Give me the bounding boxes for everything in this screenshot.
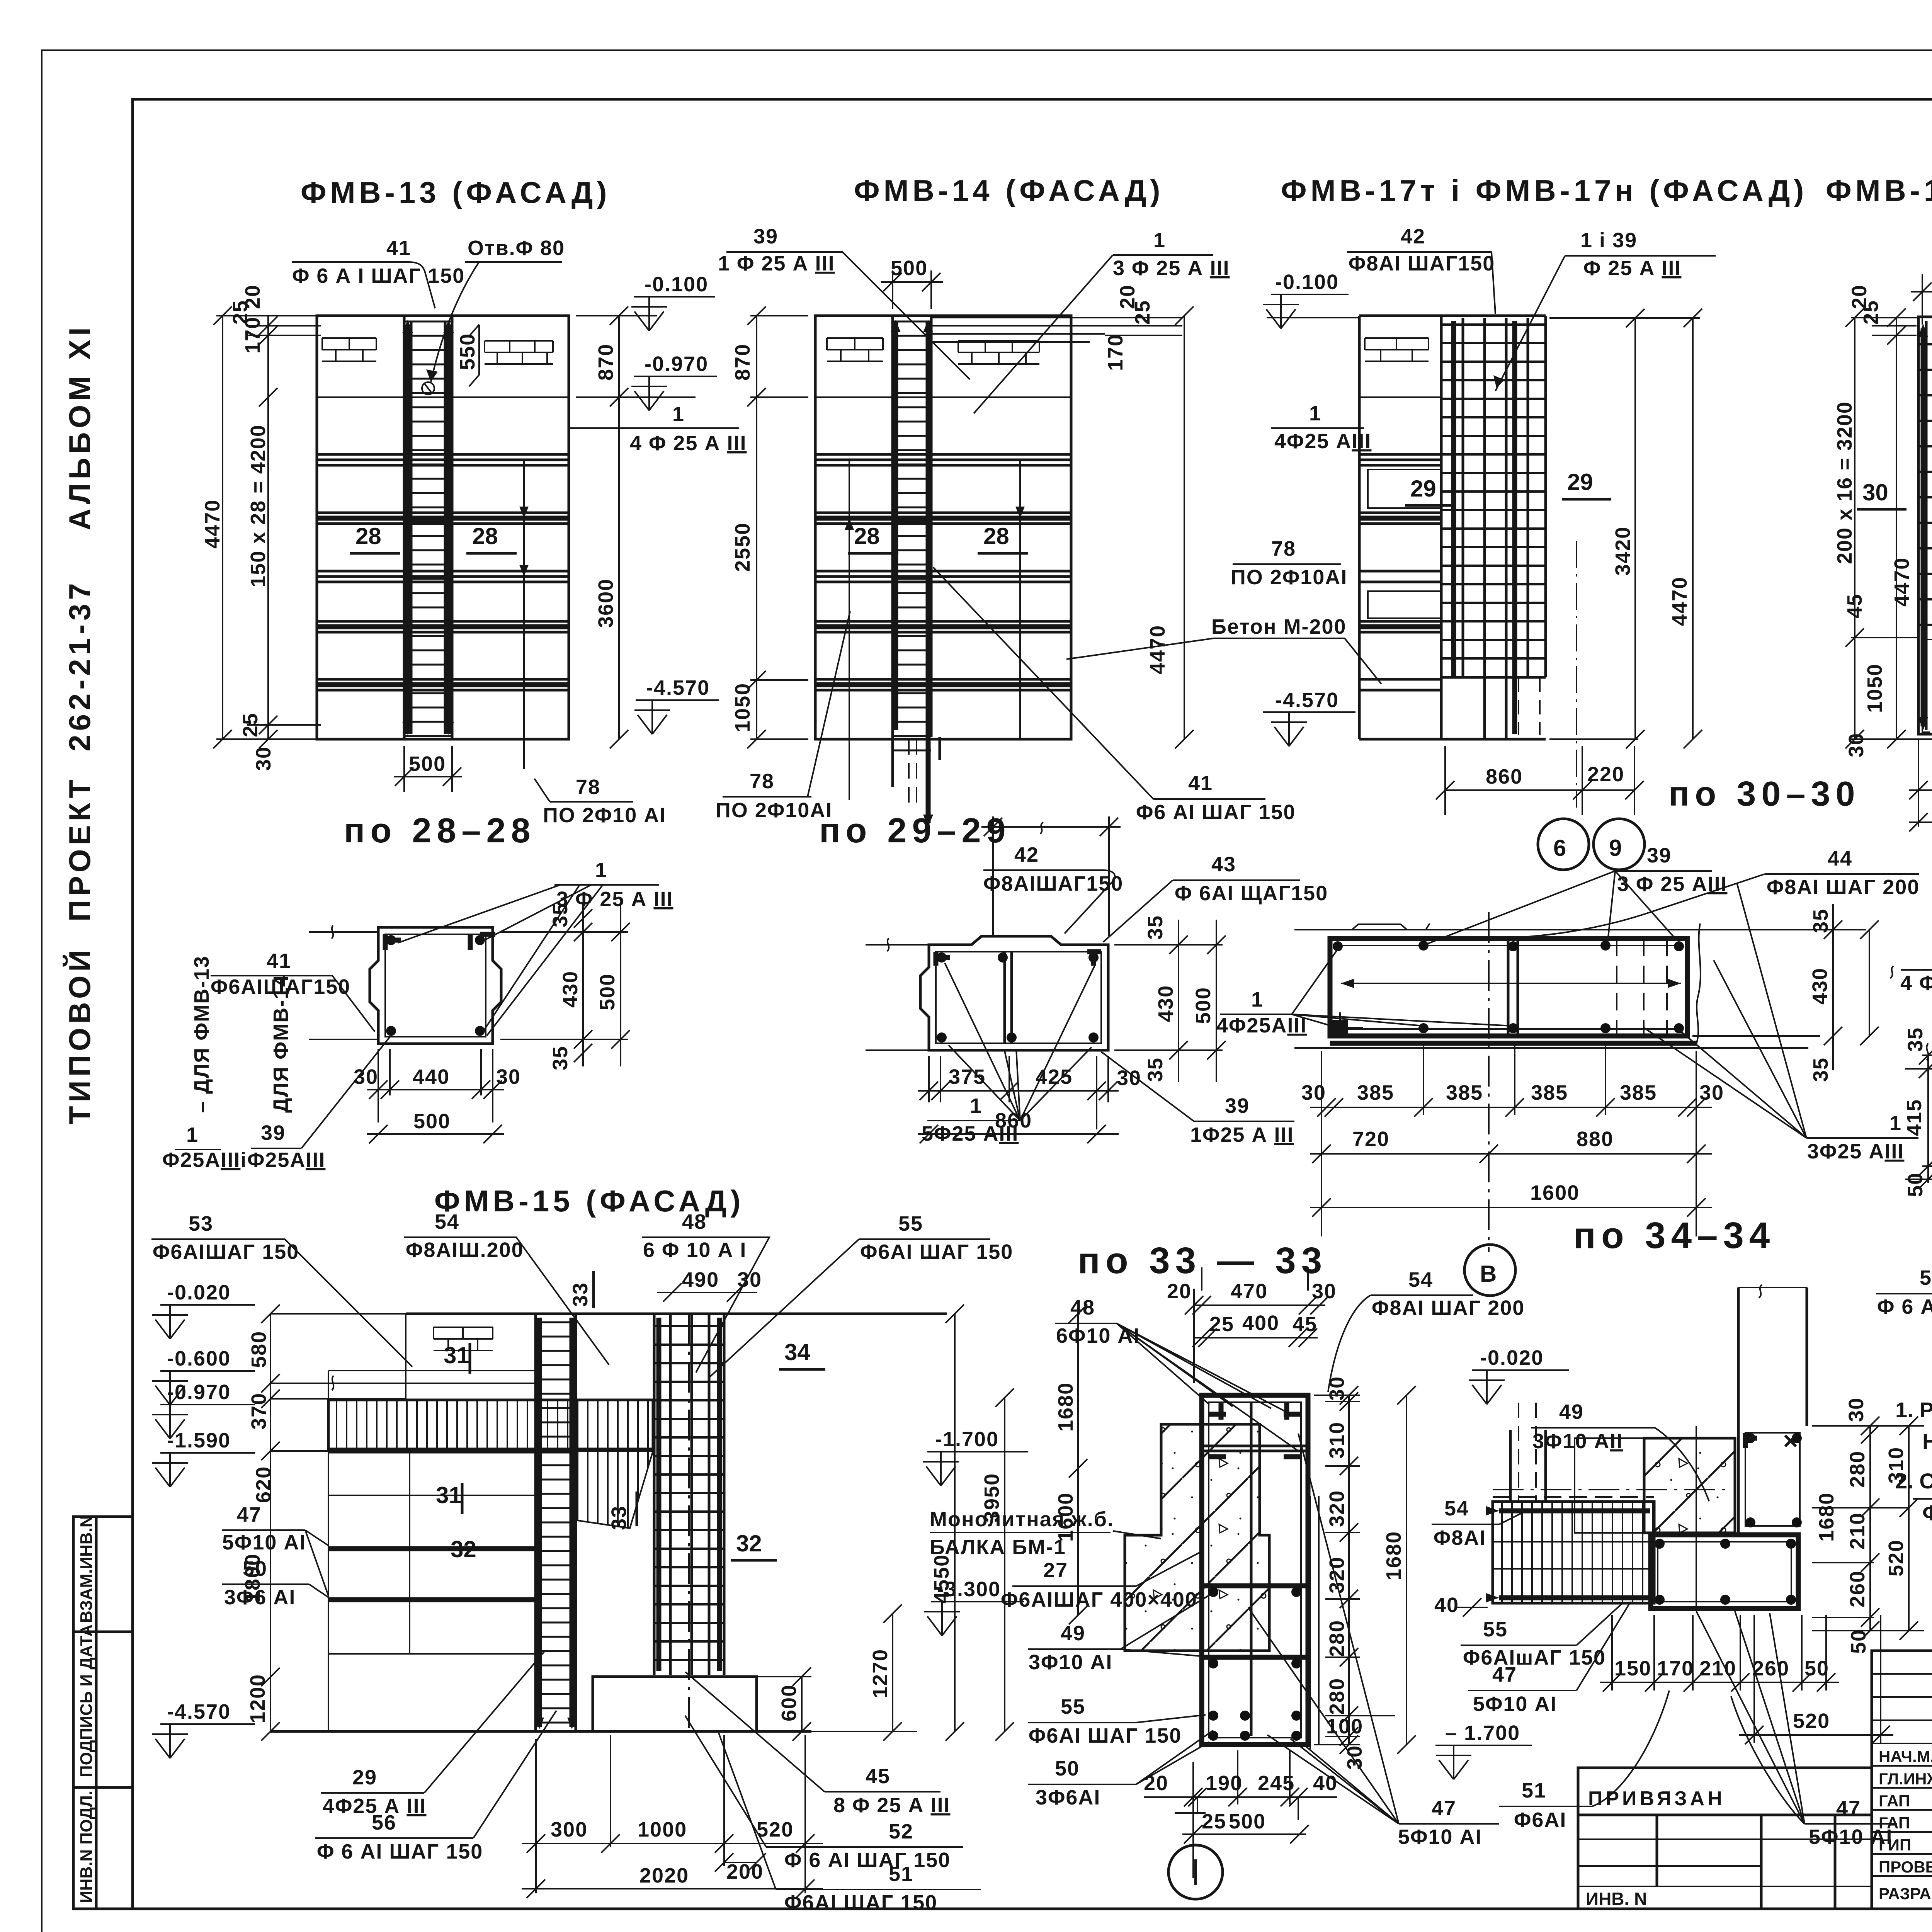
white slab rect	[1575, 1438, 1644, 1533]
svg-text:1: 1	[672, 403, 685, 426]
level -3.300	[931, 1601, 1024, 1602]
svg-text:1: 1	[595, 859, 607, 882]
svg-text:190: 190	[1206, 1772, 1243, 1795]
svg-text:280: 280	[1325, 1620, 1349, 1657]
svg-text:49: 49	[1061, 1622, 1085, 1645]
column ladder	[893, 316, 931, 760]
svg-text:ГЛ.ИНЖ.М.: ГЛ.ИНЖ.М.	[1879, 1770, 1932, 1788]
svg-text:385: 385	[1446, 1081, 1483, 1104]
svg-text:Φ6АIШАГ 150: Φ6АIШАГ 150	[153, 1240, 299, 1264]
svg-text:45: 45	[866, 1765, 890, 1788]
wall top line	[815, 396, 1071, 398]
svg-text:385: 385	[1620, 1081, 1657, 1104]
svg-text:33: 33	[569, 1282, 592, 1307]
svg-text:200: 200	[726, 1860, 764, 1883]
svg-text:по 30–30: по 30–30	[1668, 775, 1861, 813]
svg-text:870: 870	[594, 344, 617, 381]
SEC-FIG3 FMV-17 fasad	[1231, 173, 1861, 870]
svg-text:35: 35	[1144, 915, 1167, 940]
brick patch right	[485, 341, 553, 364]
brick patch left	[322, 338, 376, 361]
svg-text:1: 1	[970, 1094, 982, 1117]
SEC-FIG4 FMV-16 fasad	[1826, 173, 1932, 832]
wall outline	[815, 316, 1071, 739]
svg-text:30: 30	[737, 1268, 762, 1291]
svg-text:280: 280	[1846, 1451, 1869, 1488]
svg-text:30: 30	[252, 746, 275, 771]
svg-text:Φ 25 А III: Φ 25 А III	[1583, 257, 1681, 280]
svg-text:Φ8АI: Φ8АI	[1434, 1526, 1486, 1549]
SEC-FIG2 FMV-14 fasad	[716, 173, 1381, 850]
right dims 35/430/35	[1692, 904, 1869, 1070]
490 30 dims	[657, 1292, 757, 1293]
bold bars with arrows	[1923, 328, 1932, 726]
svg-text:490: 490	[682, 1268, 719, 1291]
lower column part	[1519, 677, 1540, 735]
svg-text:210: 210	[1846, 1512, 1869, 1549]
dashed center col2	[688, 1314, 690, 1731]
top dim 650/600	[1911, 274, 1932, 369]
svg-text:6: 6	[1553, 835, 1566, 861]
svg-text:55: 55	[1483, 1618, 1508, 1641]
svg-text:4470: 4470	[1146, 625, 1169, 674]
svg-text:ВЗАМ.ИНВ.N: ВЗАМ.ИНВ.N	[77, 1515, 96, 1623]
right dims	[724, 1314, 1078, 1731]
svg-text:ИНВ. N: ИНВ. N	[1586, 1889, 1647, 1909]
concrete blob	[1125, 1424, 1269, 1651]
svg-text:БАЛКА БМ-1: БАЛКА БМ-1	[930, 1536, 1066, 1559]
leader vertical	[523, 460, 525, 769]
svg-text:30: 30	[496, 1065, 521, 1088]
svg-text:500: 500	[891, 257, 928, 280]
svg-text:45: 45	[1843, 594, 1866, 618]
svg-text:-0.020: -0.020	[167, 1281, 231, 1304]
svg-text:370: 370	[247, 1393, 270, 1430]
circle B	[1464, 1245, 1515, 1296]
svg-text:3 Φ 25 А III: 3 Φ 25 А III	[556, 888, 673, 911]
svg-text:3Φ10 АI: 3Φ10 АI	[1029, 1651, 1112, 1674]
svg-text:ПО 2Φ10АI: ПО 2Φ10АI	[1231, 566, 1347, 589]
svg-text:29: 29	[1410, 476, 1436, 502]
svg-text:4 Φ 25 А III: 4 Φ 25 А III	[1900, 971, 1932, 995]
svg-text:ФМВ-17н СМ. НА ЧЕРТЕЖЕ КС1-1: ФМВ-17н СМ. НА ЧЕРТЕЖЕ КС1-15.	[1922, 1500, 1932, 1525]
svg-text:35: 35	[1809, 1057, 1832, 1082]
wall block w dots	[1745, 1433, 1800, 1526]
svg-text:2020: 2020	[639, 1864, 689, 1887]
svg-text:Φ6АIшАГ 150: Φ6АIшАГ 150	[1463, 1646, 1606, 1669]
corner bars	[386, 935, 396, 945]
svg-text:620: 620	[252, 1466, 275, 1503]
bottom dims	[918, 1056, 1119, 1134]
svg-text:30: 30	[1325, 1376, 1349, 1401]
brick patch	[1365, 338, 1429, 361]
svg-text:ПОДПИСЬ И ДАТА: ПОДПИСЬ И ДАТА	[77, 1624, 96, 1777]
svg-text:НА ПЛАНЕ СМ. НА ЧЕРТЕЖАХ КС: НА ПЛАНЕ СМ. НА ЧЕРТЕЖАХ КС1-1; КС1-2.	[1922, 1429, 1932, 1454]
level -0.100	[1267, 294, 1359, 318]
label 1 4f25	[569, 427, 739, 429]
level -0.970	[634, 376, 717, 377]
svg-text:29: 29	[1567, 469, 1593, 495]
svg-text:ДЛЯ ФМВ-14: ДЛЯ ФМВ-14	[269, 975, 293, 1113]
svg-text:1050: 1050	[731, 683, 754, 732]
centerline	[1488, 912, 1490, 1252]
svg-text:Φ8АIШАГ150: Φ8АIШАГ150	[983, 872, 1123, 895]
svg-text:520: 520	[757, 1818, 794, 1841]
wall top line	[406, 1313, 947, 1315]
svg-text:НАЧ.МАС.: НАЧ.МАС.	[1879, 1747, 1932, 1765]
bottom dims 860/220	[1445, 746, 1634, 815]
svg-text:320: 320	[1325, 1490, 1349, 1527]
svg-text:1: 1	[1251, 988, 1264, 1011]
svg-text:25: 25	[1202, 1810, 1226, 1833]
svg-text:41: 41	[1188, 772, 1213, 795]
svg-text:170: 170	[1104, 334, 1127, 371]
level -0.100	[634, 296, 715, 298]
svg-text:33: 33	[607, 1505, 631, 1530]
section outline with notches	[920, 936, 1108, 1050]
svg-text:4Φ25АIII: 4Φ25АIII	[1216, 1014, 1307, 1037]
svg-text:1Φ25 А III: 1Φ25 А III	[1190, 1123, 1294, 1146]
svg-text:50: 50	[1055, 1757, 1080, 1780]
svg-text:3 Φ 25 А III: 3 Φ 25 А III	[1113, 257, 1230, 280]
svg-text:5Φ10 АI: 5Φ10 АI	[222, 1531, 306, 1554]
dashed bars	[1617, 939, 1667, 1036]
svg-text:по 29–29: по 29–29	[819, 811, 1011, 850]
svg-text:ТИПОВОЙ ПРОЕКТ 262-21-37: ТИПОВОЙ ПРОЕКТ 262-21-37 АЛЬБОМ XI	[63, 323, 97, 1124]
bottom dims	[1909, 734, 1932, 827]
svg-text:ИНВ.N ПОДЛ.: ИНВ.N ПОДЛ.	[77, 1791, 96, 1903]
bottom dims	[1144, 1750, 1337, 1878]
svg-text:4Φ25 АIII: 4Φ25 АIII	[1274, 430, 1371, 453]
tall rect	[1202, 1395, 1308, 1745]
svg-text:Φ6АI: Φ6АI	[1514, 1808, 1566, 1832]
svg-text:580: 580	[247, 1331, 270, 1368]
floor bands	[317, 454, 569, 690]
levels left	[160, 1304, 255, 1306]
column grid dense	[1441, 318, 1546, 677]
svg-text:1: 1	[1309, 402, 1321, 425]
stirrup pair	[1508, 939, 1518, 1036]
right dims	[500, 904, 628, 1066]
top horizontal hatch lines right of column	[931, 318, 1105, 342]
svg-text:50: 50	[1904, 1172, 1927, 1197]
svg-text:30: 30	[1699, 1081, 1724, 1104]
svg-text:78: 78	[576, 776, 600, 799]
svg-text:470: 470	[1231, 1280, 1268, 1303]
svg-text:260: 260	[1752, 1657, 1789, 1680]
personnel rows	[1872, 1674, 1932, 1876]
svg-text:39: 39	[753, 225, 778, 248]
svg-text:32: 32	[736, 1531, 762, 1556]
550 dim	[469, 325, 479, 386]
svg-text:1 і 39: 1 і 39	[1580, 229, 1637, 252]
svg-text:48: 48	[682, 1210, 707, 1233]
SEC-PRIVYAZ	[1578, 1768, 1872, 1909]
svg-text:220: 220	[1587, 763, 1624, 786]
section square outline	[370, 927, 501, 1044]
svg-text:Φ 6 АI ШАГ 150: Φ 6 АI ШАГ 150	[1877, 1295, 1932, 1318]
SEC-TITLEBLOCK	[1872, 1651, 1932, 1932]
svg-text:по 28–28: по 28–28	[344, 811, 536, 850]
svg-text:Φ 6АI ЩАГ150: Φ 6АI ЩАГ150	[1175, 882, 1328, 905]
right dims	[576, 316, 696, 739]
svg-text:28: 28	[355, 523, 381, 549]
svg-text:29: 29	[352, 1766, 377, 1789]
svg-text:– ДЛЯ ФМВ-13: – ДЛЯ ФМВ-13	[190, 956, 213, 1113]
svg-text:400: 400	[1242, 1311, 1279, 1335]
svg-text:3600: 3600	[594, 578, 617, 628]
svg-text:Φ8АI ШАГ 200: Φ8АI ШАГ 200	[1767, 876, 1920, 899]
svg-text:-4.570: -4.570	[646, 676, 710, 699]
svg-text:39: 39	[1225, 1094, 1250, 1117]
svg-text:Монолитная ж.б.: Монолитная ж.б.	[930, 1508, 1114, 1531]
svg-text:43: 43	[1211, 853, 1236, 876]
svg-text:430: 430	[1808, 968, 1832, 1005]
long arrow bars inside	[1341, 983, 1681, 984]
bottom 500 dim	[394, 746, 462, 792]
top 500 dim	[881, 270, 943, 309]
svg-text:Φ 6 АI ШАГ 150: Φ 6 АI ШАГ 150	[784, 1849, 951, 1872]
svg-text:25: 25	[1209, 1313, 1234, 1336]
svg-text:280: 280	[1325, 1678, 1349, 1715]
svg-text:-1.700: -1.700	[935, 1428, 999, 1451]
SEC-FIG8B section po32-32	[1876, 857, 1932, 1335]
band lines	[1922, 1043, 1932, 1166]
svg-text:260: 260	[1846, 1570, 1869, 1607]
svg-text:47: 47	[1432, 1797, 1456, 1820]
svg-text:ФМВ-13 (ФАСАД): ФМВ-13 (ФАСАД)	[301, 175, 611, 209]
svg-text:-0.100: -0.100	[1275, 270, 1339, 294]
svg-text:Бетон М-200: Бетон М-200	[1211, 615, 1347, 638]
svg-text:-0.020: -0.020	[1480, 1346, 1544, 1369]
svg-text:1270: 1270	[869, 1649, 892, 1698]
SEC-FIG6 section po28-28	[162, 859, 673, 1172]
svg-text:245: 245	[1258, 1772, 1295, 1795]
level -1.700 right	[927, 1451, 1028, 1452]
bottom dims	[1310, 1041, 1712, 1236]
concrete square	[1644, 1438, 1735, 1533]
svg-text:720: 720	[1352, 1128, 1389, 1151]
verticals above beam	[1510, 1430, 1546, 1502]
svg-text:41: 41	[386, 236, 411, 260]
left dims	[1851, 317, 1932, 739]
svg-text:Φ8АIШ.200: Φ8АIШ.200	[406, 1238, 524, 1262]
role texts	[1879, 1747, 1932, 1903]
stirrup divider	[1005, 952, 1012, 1043]
svg-text:30: 30	[1301, 1081, 1326, 1104]
svg-text:430: 430	[1154, 985, 1177, 1022]
svg-text:-0.100: -0.100	[645, 273, 708, 296]
svg-text:Φ25АIII: Φ25АIII	[247, 1148, 325, 1172]
svg-text:27: 27	[1043, 1559, 1068, 1582]
svg-text:48: 48	[1070, 1296, 1095, 1319]
brick patches	[827, 338, 883, 361]
svg-text:42: 42	[1014, 843, 1039, 866]
svg-text:78: 78	[1271, 537, 1296, 560]
svg-text:Φ8АI ШАГ150: Φ8АI ШАГ150	[1349, 252, 1495, 275]
left dims 35/415/50	[1905, 1055, 1932, 1183]
svg-text:Φ6АI ШАГ 150: Φ6АI ШАГ 150	[784, 1891, 937, 1914]
title block outline	[1872, 1651, 1932, 1909]
wall top line	[317, 396, 569, 398]
svg-text:51: 51	[1522, 1779, 1546, 1802]
svg-text:28: 28	[854, 523, 880, 549]
svg-text:54: 54	[435, 1210, 459, 1233]
svg-text:39: 39	[1647, 844, 1672, 867]
svg-text:600: 600	[777, 1684, 801, 1721]
svg-text:3Φ10 АII: 3Φ10 АII	[1532, 1430, 1623, 1453]
right dims	[1812, 1426, 1924, 1631]
svg-text:500: 500	[1229, 1810, 1266, 1833]
svg-text:5Φ10 АI: 5Φ10 АI	[1398, 1825, 1482, 1849]
svg-text:56: 56	[1920, 1266, 1932, 1289]
right dim chain	[1314, 1395, 1406, 1745]
svg-text:Φ6АI ШАГ 150: Φ6АI ШАГ 150	[1029, 1724, 1182, 1747]
svg-text:Отв.Φ 80: Отв.Φ 80	[468, 236, 565, 260]
svg-text:35: 35	[1144, 1057, 1167, 1082]
svg-text:375: 375	[949, 1065, 986, 1088]
svg-text:ФМВ-17т і ФМВ-17н (ФАСАД): ФМВ-17т і ФМВ-17н (ФАСАД)	[1281, 173, 1808, 207]
internal dividers	[1202, 1446, 1308, 1451]
svg-text:9: 9	[1609, 835, 1622, 861]
svg-text:4 Φ 25 А III: 4 Φ 25 А III	[630, 432, 747, 455]
svg-text:385: 385	[1357, 1081, 1394, 1104]
svg-text:30: 30	[1117, 1066, 1141, 1090]
svg-text:1680: 1680	[1382, 1531, 1405, 1580]
svg-text:1: 1	[1889, 1112, 1902, 1135]
svg-text:30: 30	[1312, 1280, 1337, 1303]
svg-text:ГАП: ГАП	[1879, 1792, 1910, 1810]
rebar rect below	[1651, 1535, 1798, 1609]
rebar dots	[1333, 941, 1343, 951]
svg-text:6 Φ 10 А I: 6 Φ 10 А I	[643, 1238, 747, 1262]
svg-text:Φ6АI ШАГ 150: Φ6АI ШАГ 150	[860, 1240, 1013, 1264]
svg-text:47: 47	[237, 1503, 262, 1526]
svg-text:50: 50	[1847, 1629, 1870, 1654]
svg-text:-0.970: -0.970	[167, 1381, 231, 1404]
svg-text:1000: 1000	[638, 1818, 687, 1841]
svg-text:52: 52	[889, 1820, 913, 1843]
svg-text:ПО 2Φ10 АI: ПО 2Φ10 АI	[543, 804, 666, 827]
bottom dims	[367, 1049, 504, 1134]
column1 ladder	[536, 1314, 576, 1731]
column2 grid	[654, 1314, 724, 1675]
svg-text:28: 28	[472, 523, 498, 549]
thick bars left of col1	[328, 1549, 536, 1600]
beam hatched	[328, 1400, 653, 1449]
left beam grid	[1493, 1502, 1654, 1603]
svg-text:ФМВ-14 (ФАСАД): ФМВ-14 (ФАСАД)	[854, 173, 1164, 207]
svg-text:20: 20	[1167, 1280, 1192, 1303]
svg-text:25: 25	[239, 713, 262, 737]
svg-text:ПРИВЯЗАН: ПРИВЯЗАН	[1588, 1787, 1725, 1810]
svg-text:150: 150	[1614, 1657, 1651, 1680]
svg-text:4470: 4470	[1890, 557, 1913, 607]
top ref line	[981, 816, 1121, 936]
rebar dots	[937, 952, 947, 963]
panels left of col1	[328, 1451, 536, 1654]
svg-text:500: 500	[413, 1110, 451, 1133]
svg-text:5Φ25 АIII: 5Φ25 АIII	[922, 1122, 1019, 1145]
right dim 4470	[1184, 316, 1185, 739]
svg-text:50: 50	[243, 1557, 267, 1580]
svg-text:– 1.700: – 1.700	[1445, 1721, 1520, 1745]
svg-text:1. РАСПОЛОЖЕНИЕ ФМВ-13÷ФМВ-17: 1. РАСПОЛОЖЕНИЕ ФМВ-13÷ФМВ-17т; ФМВ-17н	[1895, 1398, 1932, 1422]
svg-text:25: 25	[1131, 300, 1154, 325]
svg-text:Φ6АIШАГ 400×400: Φ6АIШАГ 400×400	[1001, 1588, 1197, 1611]
level -4.570	[636, 699, 719, 701]
wall cut extension	[309, 925, 378, 1039]
svg-text:870: 870	[731, 344, 754, 381]
svg-text:ПО 2Φ10АI: ПО 2Φ10АI	[716, 799, 832, 822]
svg-text:200 x 16 = 3200: 200 x 16 = 3200	[1833, 401, 1856, 564]
svg-text:1: 1	[186, 1123, 199, 1146]
bottom dims	[522, 1735, 823, 1893]
svg-text:ФМВ-16т ; ФМВ-16н (ФАСАД): ФМВ-16т ; ФМВ-16н (ФАСАД)	[1826, 173, 1932, 207]
svg-text:39: 39	[261, 1121, 286, 1145]
svg-text:3Φ6 АI: 3Φ6 АI	[224, 1586, 296, 1609]
dashed top line	[1493, 1496, 1654, 1498]
svg-text:40: 40	[1434, 1594, 1459, 1617]
svg-text:55: 55	[1061, 1695, 1085, 1718]
SEC-FIG8 section po30-30 drawing	[1216, 844, 1920, 1296]
SEC-FIG1 FMV-13 fasad	[201, 175, 747, 850]
right dims	[1114, 920, 1223, 1082]
svg-text:51: 51	[889, 1862, 913, 1886]
floor bands	[815, 454, 1071, 690]
hole symbol	[422, 382, 434, 395]
svg-text:78: 78	[750, 770, 774, 793]
svg-text:4470: 4470	[201, 499, 224, 549]
svg-text:42: 42	[1401, 225, 1425, 248]
svg-text:310: 310	[1325, 1422, 1349, 1459]
svg-text:320: 320	[1325, 1556, 1349, 1594]
svg-text:-3.300: -3.300	[937, 1578, 1001, 1601]
svg-text:210: 210	[1699, 1657, 1736, 1680]
svg-text:54: 54	[1408, 1268, 1433, 1291]
left dims 870/2550/1050	[750, 316, 808, 739]
svg-text:500: 500	[1192, 987, 1215, 1024]
svg-text:1680: 1680	[1054, 1382, 1077, 1432]
svg-text:430: 430	[559, 971, 582, 1008]
svg-text:-0.600: -0.600	[167, 1347, 231, 1370]
svg-text:35: 35	[1809, 908, 1832, 933]
bottom dims	[1600, 1615, 1893, 1743]
svg-text:1 Φ 25 А III: 1 Φ 25 А III	[718, 252, 835, 275]
svg-text:500: 500	[596, 973, 619, 1010]
svg-text:РАЗРАБ.: РАЗРАБ.	[1879, 1884, 1932, 1903]
band outer lines	[1294, 923, 1808, 930]
svg-text:5Φ10 АI: 5Φ10 АI	[1809, 1825, 1893, 1849]
svg-text:170: 170	[1657, 1657, 1694, 1680]
svg-text:520: 520	[1793, 1709, 1830, 1733]
svg-text:500: 500	[409, 752, 446, 776]
svg-text:25: 25	[1859, 300, 1883, 325]
dashed lower box	[1922, 639, 1932, 732]
svg-text:54: 54	[1444, 1497, 1469, 1520]
svg-text:40: 40	[1313, 1772, 1338, 1795]
top dims	[1194, 1267, 1325, 1383]
left panel bands	[1359, 396, 1441, 398]
right dims 3420/4470	[1549, 318, 1700, 739]
level -4.570	[1263, 711, 1355, 713]
grid body	[1918, 330, 1932, 636]
svg-text:ПРОВЕР.: ПРОВЕР.	[1879, 1858, 1932, 1876]
svg-text:3420: 3420	[1611, 526, 1634, 576]
small dims right top 20/25/170	[1071, 318, 1183, 335]
ground line	[270, 1730, 811, 1733]
svg-text:300: 300	[551, 1818, 588, 1841]
